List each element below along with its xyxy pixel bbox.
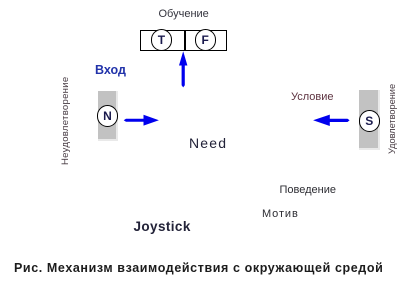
node label behaviour (280, 184, 337, 196)
node label Need (189, 135, 227, 151)
node label motive (262, 208, 299, 220)
node T (151, 29, 172, 50)
left vertical axis label (60, 77, 71, 165)
bar N (98, 91, 119, 142)
arrow right from N (124, 115, 159, 126)
box F (right cell) (185, 30, 227, 52)
node label right (291, 91, 334, 103)
node label Input (95, 63, 126, 77)
arrow up into box (179, 51, 187, 87)
node S (359, 110, 381, 132)
node N (97, 105, 119, 127)
node label Joystick (134, 219, 191, 234)
node F (195, 29, 216, 50)
node label Output (159, 8, 209, 20)
arrow left from S (313, 115, 350, 126)
box T (left cell) (140, 30, 185, 52)
right vertical axis label (387, 84, 397, 154)
caption (14, 261, 383, 275)
bar S (359, 90, 380, 150)
